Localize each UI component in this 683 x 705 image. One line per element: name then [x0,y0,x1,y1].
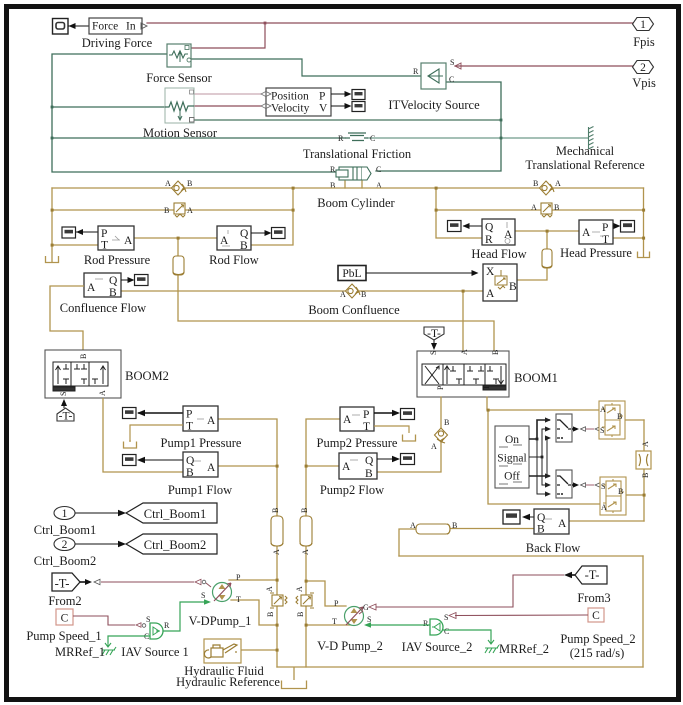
wire trunk pump1 x277 [218,419,277,667]
svg-text:P: P [363,409,369,421]
svg-text:Translational Reference: Translational Reference [525,158,645,172]
svg-text:Fpis: Fpis [633,35,655,49]
wire back pipe left [399,529,416,556]
svg-text:A: A [342,461,351,473]
wire confluence line y291 [121,290,483,292]
svg-text:-T-: -T- [59,411,73,423]
svg-text:ITVelocity Source: ITVelocity Source [388,98,480,112]
svg-text:Motion Sensor: Motion Sensor [143,126,218,140]
wire confluence flow arrow [121,277,135,283]
svg-text:BOOM1: BOOM1 [514,371,558,385]
block Pump Speed_1 C [56,609,73,625]
source ITVelocity Source [413,58,454,89]
valve check valve head [533,179,561,195]
svg-text:B: B [509,281,517,293]
wire PbL to X [366,270,479,276]
svg-text:T: T [186,421,193,433]
valve relief valve rod [164,203,193,217]
wire confluence flow A to BOOM2 B [50,286,84,350]
svg-text:Q: Q [109,275,118,287]
block Hydraulic Fluid [204,639,241,663]
wire velocity source C vertical [376,82,501,171]
svg-text:PbL: PbL [342,268,361,280]
svg-text:T: T [363,421,370,433]
wire pump1 pressure arrow [137,410,183,416]
scope Back Flow scope [503,510,520,524]
sensor Motion Sensor [165,88,194,123]
wire head flow arrow [463,223,483,229]
wire inport2 to goto [75,541,126,547]
tag From3 [564,566,607,584]
tag From2 [52,573,80,591]
svg-text:C: C [376,165,381,174]
svg-text:R: R [423,619,429,628]
wire pump1 pressure T to tank [130,425,183,441]
orifice local restriction [636,441,651,478]
wire motion sensor left [52,106,165,108]
svg-text:IAV Source_2: IAV Source_2 [402,640,473,654]
svg-text:A: A [295,586,304,592]
svg-text:Q: Q [365,455,374,467]
wire head pressure arrow [613,223,621,229]
svg-text:B: B [452,521,457,530]
svg-text:Force Sensor: Force Sensor [146,71,212,85]
pump V-D Pump_2 [332,599,371,626]
svg-text:Mechanical: Mechanical [556,144,615,158]
svg-text:Signal: Signal [497,453,526,465]
port Fpis outport 1 [633,18,654,32]
svg-text:From3: From3 [577,591,610,605]
svg-text:Rod Flow: Rod Flow [209,253,259,267]
wire BOOM1 T drop junction [487,409,490,412]
scope Head Flow scope [448,221,462,232]
svg-text:B: B [617,412,622,421]
svg-text:On: On [505,434,519,446]
port Ctrl_Boom1 inport 1 [54,507,75,521]
svg-text:B: B [537,524,545,536]
svg-text:MRRef_1: MRRef_1 [55,645,105,659]
scope Head Pressure scope [621,221,635,233]
svg-text:Boom Cylinder: Boom Cylinder [317,196,395,210]
sensor Rod Flow [217,226,251,252]
svg-text:C: C [592,610,600,622]
wire force sensor C to velocity source R [191,59,421,76]
svg-text:A: A [98,390,107,396]
wire switch1 out to valve S [572,426,600,431]
svg-text:S: S [201,591,205,600]
wire IAV2 C to ground [443,630,491,641]
block Force In (Driving Force) [89,18,147,34]
wire Signal to switches [529,426,551,487]
svg-text:R: R [413,67,419,76]
svg-text:V-D Pump_2: V-D Pump_2 [317,639,383,653]
svg-text:Back Flow: Back Flow [526,541,581,555]
svg-text:Pump Speed_1: Pump Speed_1 [26,629,101,643]
tag goto Ctrl_Boom1 [126,503,217,523]
wire On to switches [529,417,551,496]
orifice head vertical pipe [542,249,552,268]
wire hydraulic fluid out [241,649,277,651]
wire head relief line y210 [436,209,644,211]
wire valve drain vertical [643,420,645,521]
wire motion C line [194,119,501,121]
wire V out [331,103,352,109]
valve check valve rod [165,179,192,195]
valve Boom Confluence pilot valve [483,264,517,301]
svg-text:Head Pressure: Head Pressure [560,246,632,260]
block On Signal Off source [495,426,529,488]
friction Translational Friction [338,133,375,143]
block Position Velocity scope-subsystem [266,88,331,116]
wire lower valve B [620,494,644,496]
scope Confluence Flow scope [135,275,149,286]
wire rod pressure T [52,244,98,246]
svg-text:Ctrl_Boom2: Ctrl_Boom2 [34,554,97,568]
svg-text:From2: From2 [48,594,81,608]
svg-text:B: B [361,290,366,299]
svg-text:R: R [164,621,170,630]
svg-text:MRRef_2: MRRef_2 [499,642,549,656]
scope Pump2 Pressure scope [401,409,415,420]
wire switch2 out to valve S [572,482,600,487]
wire From2 to pump1 G [80,579,211,587]
pump V-DPump_1 [201,573,241,604]
svg-text:A: A [460,349,469,355]
svg-text:B: B [554,203,559,212]
sensor Head Pressure [579,220,613,246]
wire friction line left [52,137,345,139]
wire rod orifice branch to BOOM1 B [178,238,494,351]
svg-text:P: P [236,573,241,582]
node tan junctions top [51,187,646,293]
wire loop right side [642,556,644,667]
wire pump2 T [306,624,354,626]
wire IAV1 C to ground [108,636,150,643]
block PbL goto [338,266,366,281]
scope Pump1 Flow scope [123,455,137,466]
node tan junctions mid [276,465,646,652]
wire From3 to pump2 G maroon [359,575,564,614]
svg-text:B: B [187,179,192,188]
port Ctrl_Boom2 inport 2 [54,538,75,552]
svg-text:Q: Q [485,222,494,234]
svg-text:R: R [485,234,493,246]
svg-text:V-DPump_1: V-DPump_1 [189,614,252,628]
svg-text:Ctrl_Boom1: Ctrl_Boom1 [34,523,97,537]
svg-text:Hydraulic Reference: Hydraulic Reference [176,675,280,689]
svg-text:S: S [59,392,68,396]
svg-text:A: A [272,549,281,555]
valve relief pump1 [265,586,287,617]
wire back flow A to drain [569,520,644,522]
svg-text:G: G [363,603,369,612]
wire pump speed1 to IAV S [73,616,146,627]
svg-text:A: A [343,414,352,426]
svg-text:Head Flow: Head Flow [471,247,526,261]
svg-text:B: B [271,508,280,513]
svg-text:Rod Pressure: Rod Pressure [84,253,151,267]
svg-text:V: V [319,103,328,115]
svg-text:B: B [164,206,169,215]
source IAV Source_2 [423,613,449,636]
wire left tank trunk [51,188,53,262]
svg-text:Velocity: Velocity [271,103,310,115]
svg-text:T: T [236,595,241,604]
svg-text:B: B [365,468,373,480]
pipe back flow pipe [410,521,457,534]
svg-text:P: P [602,222,608,234]
scope Rod Pressure scope [62,227,76,238]
svg-text:C: C [61,613,69,625]
svg-text:Q: Q [537,512,546,524]
node green junctions [51,106,503,140]
wire rod relief line y210 [52,209,293,211]
wire pump speed2 to IAV2 S maroon [449,613,588,619]
svg-text:A: A [207,462,216,474]
svg-text:B: B [491,350,500,355]
svg-text:A: A [431,442,437,451]
valve 2W upper cartridge [599,401,625,439]
svg-text:Pump2 Flow: Pump2 Flow [320,483,384,497]
wire cylinder B drop [344,181,346,188]
valve 2W lower cartridge [600,477,626,515]
wire confluence to BOOM1 A [462,291,464,351]
svg-text:C: C [444,627,449,636]
valve BOOM2 directional valve [45,350,121,398]
svg-text:B: B [533,179,538,188]
pipe pump2 line pipe [300,508,312,555]
wire upper valve B [620,419,644,421]
svg-text:S: S [450,58,454,67]
svg-text:X: X [486,266,495,278]
svg-text:Driving Force: Driving Force [82,36,153,50]
svg-text:P: P [186,409,192,421]
tank left rod tank [46,256,59,263]
svg-text:A: A [87,282,96,294]
svg-text:A: A [187,206,193,215]
svg-text:1: 1 [62,508,68,520]
svg-text:Q: Q [240,228,249,240]
wire BOOM1 T to valves A [487,397,599,410]
wire cylinder A drop [361,181,363,188]
wire pump2 pressure T to tank [374,426,409,433]
source IAV Source 1 [144,615,170,641]
wire rod flow arrow [251,230,272,236]
wire head vertical x436 [436,188,482,238]
wire rod vertical x293 [251,188,293,245]
svg-text:T: T [332,617,337,626]
ground Mechanical Translational Reference [589,127,594,150]
svg-text:A: A [165,179,171,188]
wire inport1 to goto [75,510,126,516]
wire back pipe to back flow [450,528,534,530]
scope mini P [352,90,365,100]
svg-text:Pump2 Pressure: Pump2 Pressure [317,436,398,450]
svg-text:Vpis: Vpis [632,76,656,90]
pipe pump1 line pipe [271,508,283,555]
svg-text:2: 2 [640,62,646,74]
scope mini V [352,102,365,112]
scope Rod Flow scope [272,228,286,239]
wire Fpis maroon [147,22,633,24]
svg-text:(215 rad/s): (215 rad/s) [570,646,625,660]
wire rod sensors line y238 [134,237,217,239]
svg-text:Q: Q [186,455,195,467]
valve check valve BOOM1 P [431,418,449,451]
svg-text:B: B [444,418,449,427]
wire pump2 flow B to BOOM1 P [377,397,441,472]
svg-text:Pump Speed_2: Pump Speed_2 [560,632,635,646]
wire pump2 P [306,581,346,606]
switch upper [556,414,572,442]
svg-text:B: B [618,487,623,496]
wire valves A lower branch [488,410,601,504]
svg-text:Pump1 Flow: Pump1 Flow [168,483,232,497]
port Vpis outport 2 [633,61,654,75]
wire BOOM2 A to pump1 flow B [103,398,183,472]
wire P out [331,91,352,97]
svg-text:B: B [240,240,248,252]
wire right tank trunk [643,188,645,257]
svg-text:Pump1 Pressure: Pump1 Pressure [161,436,242,450]
svg-text:R: R [338,134,344,143]
tag goto Ctrl_Boom2 [126,534,217,554]
svg-text:A: A [558,518,567,530]
svg-text:S: S [600,426,604,435]
svg-text:B: B [296,612,305,617]
scope Pump2 Flow scope [401,454,415,465]
ground MRRef_2 [485,640,499,653]
wire green trunk left [52,54,339,172]
svg-text:S: S [429,351,438,355]
sensor Back Flow [534,509,569,536]
svg-text:P: P [334,599,339,608]
wire rod pressure arrow [76,229,98,235]
tag From BOOM2 -T- [57,399,74,423]
svg-text:A: A [265,586,274,592]
svg-text:A: A [124,235,133,247]
svg-text:-T-: -T- [55,577,70,591]
wire trunk pump2 x306 [306,419,340,667]
svg-text:Ctrl_Boom1: Ctrl_Boom1 [144,507,207,521]
sensor Pump1 Flow [183,452,218,479]
svg-text:In: In [126,21,136,33]
svg-text:B: B [109,287,117,299]
svg-text:A: A [641,441,650,447]
svg-text:A: A [340,290,346,299]
svg-text:BOOM2: BOOM2 [125,369,169,383]
svg-text:B: B [79,354,88,359]
wire bottom bus [277,666,643,668]
svg-text:P: P [101,228,107,240]
svg-text:R: R [330,165,336,174]
svg-text:Position: Position [271,91,309,103]
sensor Head Flow [482,219,515,246]
tank hydraulic reference tank [282,667,307,689]
svg-text:1: 1 [640,19,646,31]
wire pump2 pressure arrow [374,410,400,416]
wire pump1 T [231,600,277,625]
svg-text:T: T [101,240,108,252]
svg-text:Ctrl_Boom2: Ctrl_Boom2 [144,538,207,552]
node maroon junction [264,22,267,25]
svg-text:A: A [582,227,591,239]
svg-text:Off: Off [504,471,520,483]
wire friction line right to reference [368,137,588,139]
valve relief valve head [531,203,559,217]
valve BOOM1 directional valve [417,349,509,397]
svg-text:S: S [146,615,150,624]
wire head pressure T [613,237,644,239]
svg-text:P: P [319,91,325,103]
svg-text:B: B [641,473,650,478]
svg-text:B: B [266,612,275,617]
wire Vpis maroon [455,65,633,67]
svg-text:A: A [531,203,537,212]
wire position pale [194,93,261,95]
actuator Boom Cylinder [330,165,382,190]
sensor Pump1 Pressure [183,406,218,433]
svg-text:B: B [186,467,194,479]
ground MRRef_1 [102,643,116,655]
valve check valve confluence [340,284,366,299]
svg-text:A: A [410,521,416,530]
wire head sensors line y231 [515,230,579,232]
sensor Force Sensor [167,44,191,67]
svg-text:Translational Friction: Translational Friction [303,147,412,161]
svg-text:-T-: -T- [585,568,600,582]
wire head orifice branch [517,231,547,280]
scope Scope1 [53,19,69,35]
wire IAV1 R to pump1 S [163,599,211,631]
svg-text:B: B [300,508,309,513]
svg-text:Boom Confluence: Boom Confluence [308,303,400,317]
svg-text:A: A [601,503,607,512]
wire loop top [399,555,643,557]
svg-text:T: T [482,385,491,390]
sensor Pump2 Flow [339,453,377,480]
svg-text:C: C [449,75,454,84]
wire velocity maroon [194,105,261,107]
wire scope arrow [68,23,89,29]
scope Pump1 Pressure scope [123,408,137,419]
wire pump1 flow arrow [137,457,183,463]
orifice rod vertical pipe [173,256,184,275]
tank pump2 tank [403,435,416,442]
wire pump2 flow arrow [377,456,400,462]
valve relief pump2 [295,586,314,617]
svg-text:S: S [444,613,448,622]
svg-text:S: S [601,482,605,491]
svg-text:2: 2 [62,539,68,551]
tank pump1 tank [124,440,137,448]
wire back flow arrow [522,514,534,520]
svg-text:C: C [370,134,375,143]
wire pump2 flow A [306,465,339,467]
svg-text:A: A [600,405,606,414]
wire IAV2 R to pump2 S [364,622,430,628]
svg-text:A: A [207,415,216,427]
tag From BOOM1 -T- [424,327,444,350]
wire rod-head return line y188 [52,187,644,189]
sensor Confluence Flow [84,273,121,299]
wire Off to switches [529,435,551,478]
wire pump1 P [229,579,277,581]
svg-text:A: A [220,235,229,247]
svg-text:Force: Force [92,21,118,33]
sensor Rod Pressure [98,226,134,252]
block Pump Speed_2 C [588,608,604,622]
